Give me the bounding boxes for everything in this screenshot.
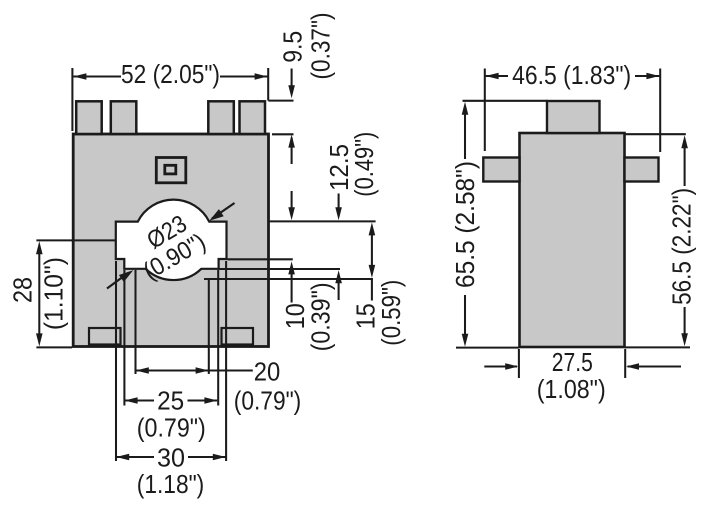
- dim 30 lines: [116, 261, 226, 461]
- dim 46.5 arrowheads: [486, 73, 499, 80]
- dim 46.5 lines: [485, 69, 660, 153]
- svg-text:20: 20: [254, 357, 281, 387]
- dim 56.5 lines: [625, 134, 690, 347]
- terminal tab 1: [76, 101, 102, 134]
- dim 56.5 arrowheads: [681, 135, 688, 148]
- dim 10 arrowheads: [288, 207, 295, 220]
- dim 20 arrowheads: [136, 367, 149, 374]
- label O23 (0.90"): [139, 210, 211, 285]
- body: [520, 133, 625, 347]
- dim 27.5 lines: [484, 349, 681, 378]
- svg-text:56.5 (2.22"): 56.5 (2.22"): [667, 188, 697, 305]
- dim 52 lines: [72, 68, 268, 131]
- side tab right: [625, 158, 659, 182]
- dim 12.5 lines: [219, 194, 376, 301]
- svg-text:46.5 (1.83"): 46.5 (1.83"): [512, 60, 631, 90]
- dim 15 lines: [204, 232, 373, 301]
- center square inner: [165, 165, 176, 174]
- leader to hole: [212, 203, 235, 219]
- leader to notch: [107, 273, 128, 289]
- dim 10 lines: [228, 191, 293, 303]
- dim 28 arrowheads: [36, 241, 43, 254]
- svg-text:(0.79"): (0.79"): [137, 413, 206, 443]
- dim 9.5 lines: [268, 69, 293, 165]
- svg-text:30: 30: [157, 443, 185, 473]
- dim 27.5 arrowheads: [505, 363, 518, 370]
- dim 15 arrowheads: [369, 222, 376, 235]
- svg-text:(0.37"): (0.37"): [306, 13, 336, 80]
- window cutout: [116, 200, 227, 280]
- svg-text:9.5: 9.5: [278, 31, 308, 63]
- top tab: [547, 101, 600, 133]
- terminal tab 2: [111, 101, 137, 134]
- svg-text:27.5: 27.5: [552, 347, 593, 377]
- dim 28 lines: [36, 240, 115, 347]
- svg-text:65.5 (2.58"): 65.5 (2.58"): [450, 161, 480, 288]
- svg-text:(0.49"): (0.49"): [349, 132, 379, 197]
- svg-text:(0.79"): (0.79"): [234, 386, 302, 416]
- dim 9.5 arrowheads: [288, 85, 295, 98]
- bottom slot right: [222, 328, 254, 345]
- dim 52 arrowheads: [73, 73, 86, 80]
- dim 65.5 lines: [456, 101, 548, 348]
- dim 25 arrowheads: [125, 397, 138, 404]
- svg-text:52 (2.05"): 52 (2.05"): [121, 59, 220, 89]
- svg-text:(1.08"): (1.08"): [537, 374, 606, 404]
- svg-text:(1.18"): (1.18"): [137, 469, 205, 499]
- svg-text:(0.59"): (0.59"): [376, 280, 406, 346]
- dim 12.5 arrowheads: [335, 207, 342, 220]
- dim 30 arrowheads: [116, 454, 129, 461]
- center square outer: [156, 158, 186, 183]
- dim 65.5 arrowheads: [462, 102, 469, 115]
- dim 25 lines: [124, 270, 218, 406]
- svg-text:28: 28: [8, 277, 38, 303]
- bottom slot left: [89, 328, 121, 345]
- body: [73, 134, 268, 347]
- terminal tab 3: [208, 101, 234, 134]
- terminal tab 4: [240, 101, 266, 134]
- side tab left: [483, 158, 519, 182]
- svg-text:(0.39"): (0.39"): [306, 282, 336, 351]
- svg-text:(1.10"): (1.10"): [39, 257, 69, 330]
- dim 20 lines: [136, 270, 253, 374]
- svg-text:25: 25: [157, 386, 184, 416]
